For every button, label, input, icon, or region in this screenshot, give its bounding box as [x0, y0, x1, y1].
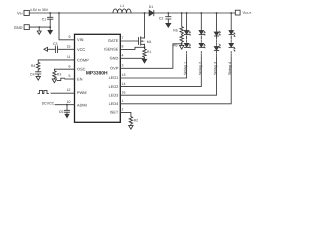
capacitor C4 — [36, 72, 41, 74]
svg-text:7: 7 — [122, 36, 124, 40]
svg-text:L1: L1 — [120, 4, 124, 8]
svg-text:LED3: LED3 — [109, 92, 119, 97]
resistor R5 — [180, 13, 183, 35]
svg-text:C3: C3 — [53, 42, 58, 46]
svg-text:2: 2 — [122, 108, 124, 112]
svg-text:ISET: ISET — [110, 110, 119, 115]
ground C2 (solid) — [166, 23, 171, 27]
svg-text:4.5V to 36V: 4.5V to 36V — [30, 8, 49, 12]
svg-text:GATE: GATE — [108, 38, 119, 43]
resistor R4 — [37, 60, 40, 72]
svg-text:EN: EN — [77, 76, 83, 81]
ground R1 (solid) — [142, 59, 146, 63]
svg-text:6: 6 — [69, 64, 71, 68]
LED string 2 — [120, 12, 205, 87]
svg-text:R2: R2 — [134, 119, 139, 123]
svg-text:D1: D1 — [149, 5, 154, 9]
connector VIN terminal — [24, 10, 29, 15]
wire GATE to MOSFET — [120, 40, 138, 42]
ground R2 (open arrow) — [129, 125, 133, 129]
svg-text:9: 9 — [69, 35, 71, 39]
svg-text:DCVCC: DCVCC — [42, 101, 55, 105]
LED string 1 — [120, 12, 190, 78]
wire drain — [144, 13, 146, 38]
svg-text:String 4: String 4 — [228, 62, 232, 75]
wire VIN to pin 9 — [59, 13, 75, 40]
resistor R2 — [129, 117, 132, 126]
ground OVP divider (open arrow) — [180, 44, 184, 49]
node C2 junction — [167, 12, 169, 14]
capacitor C1 — [49, 12, 51, 14]
LED D5 — [199, 43, 203, 47]
LED string 4 — [120, 12, 235, 104]
LED D2 — [184, 31, 188, 34]
wire string 3 top — [216, 13, 218, 32]
node string 3 junction — [216, 12, 218, 14]
svg-text:MP3390H: MP3390H — [86, 71, 108, 77]
svg-text:LED1: LED1 — [109, 75, 119, 80]
svg-text:5: 5 — [69, 74, 71, 78]
node string 1 junction — [186, 12, 188, 14]
svg-text:11: 11 — [67, 55, 71, 59]
connector VOUT terminal — [235, 10, 240, 15]
wire PWM — [51, 92, 75, 94]
ground arrow left (open) — [44, 47, 48, 51]
wire string 4 top — [230, 13, 232, 32]
svg-text:LED2: LED2 — [109, 84, 119, 89]
svg-text:16: 16 — [122, 90, 126, 94]
wire string 3 to LED3 pin — [216, 52, 218, 57]
connector GND terminal — [24, 25, 29, 30]
node string 2 junction — [200, 12, 202, 14]
wire ISENSE — [120, 47, 144, 49]
capacitor C3 — [58, 48, 75, 50]
wire GND horizontal — [29, 26, 50, 28]
wire string 1 to LED1 pin — [186, 52, 188, 57]
svg-text:R4: R4 — [31, 64, 36, 68]
wire string 1 dashed — [186, 38, 188, 46]
wire OVP — [120, 44, 181, 69]
capacitor C5 — [66, 105, 68, 111]
svg-text:VIN: VIN — [77, 37, 84, 42]
node source junction — [144, 46, 146, 48]
node string 4 junction — [230, 12, 232, 14]
resistor R1 — [143, 47, 146, 58]
svg-text:ADIM: ADIM — [77, 102, 87, 107]
LED string 3 — [120, 12, 220, 95]
svg-text:COMP: COMP — [77, 57, 89, 62]
LED D7 — [214, 47, 218, 51]
svg-text:GND: GND — [14, 25, 23, 30]
ground earth symbol (open triangle) — [38, 26, 40, 28]
ground C5 (solid) — [65, 114, 69, 117]
LED D9 — [229, 43, 233, 47]
wire string 2 to LED2 pin — [200, 52, 202, 57]
IC U1 MP3390H body — [75, 34, 121, 122]
wire string 2 top — [200, 13, 202, 32]
LED D3 — [184, 43, 188, 47]
LED D8 — [229, 31, 233, 34]
svg-text:OVP: OVP — [110, 66, 119, 71]
svg-text:String 3: String 3 — [214, 62, 218, 75]
wire EN — [65, 78, 75, 80]
svg-text:3: 3 — [122, 64, 124, 68]
svg-text:GND: GND — [110, 56, 119, 61]
wire string 1 top — [186, 13, 188, 32]
svg-text:14: 14 — [122, 82, 126, 86]
svg-text:VCC: VCC — [77, 47, 85, 52]
svg-text:R1: R1 — [147, 50, 152, 54]
svg-text:VOUT: VOUT — [243, 10, 252, 15]
svg-text:1: 1 — [122, 99, 124, 103]
ground OSC (open arrow) — [52, 79, 56, 83]
wire OSC — [54, 68, 74, 70]
svg-text:10: 10 — [67, 100, 71, 104]
wire source — [144, 44, 146, 47]
svg-text:M1: M1 — [147, 40, 152, 44]
svg-text:LED4: LED4 — [109, 101, 120, 106]
svg-text:R3: R3 — [57, 72, 62, 76]
node ADIM/C5 junction — [66, 104, 68, 106]
svg-text:8: 8 — [122, 45, 124, 49]
wire ADIM / DCVCC — [55, 104, 75, 106]
node OVP tap — [181, 43, 183, 45]
resistor R3 — [53, 69, 56, 79]
node drain junction — [144, 12, 146, 14]
PWM input square wave symbol — [38, 90, 48, 93]
svg-text:PWM: PWM — [77, 90, 87, 95]
svg-text:ISENSE: ISENSE — [104, 47, 119, 52]
wire string 4 dashed — [230, 38, 232, 46]
wire GND pin to R1 — [120, 57, 144, 59]
svg-text:R5: R5 — [173, 29, 178, 33]
EN step waveform symbol — [57, 78, 64, 80]
wire VIN rail top — [29, 12, 235, 14]
svg-text:VIN: VIN — [17, 11, 23, 16]
svg-text:OSC: OSC — [77, 67, 86, 72]
node OVP divider top junction — [181, 12, 183, 14]
wire string 2 dashed — [200, 38, 202, 46]
svg-text:C1: C1 — [42, 17, 47, 21]
svg-text:String 1: String 1 — [184, 62, 188, 75]
svg-text:C5: C5 — [59, 110, 64, 114]
svg-text:13: 13 — [122, 73, 126, 77]
capacitor C2 — [167, 13, 169, 17]
svg-text:12: 12 — [67, 88, 71, 92]
wire string 4 to LED4 pin — [230, 52, 232, 57]
LED D6 — [214, 32, 218, 36]
resistor R6 — [180, 35, 183, 44]
svg-text:C4: C4 — [30, 72, 35, 76]
ground C1 (solid) — [49, 26, 51, 28]
ground COMP (open arrow) — [36, 76, 40, 80]
svg-text:15: 15 — [67, 45, 71, 49]
svg-text:4: 4 — [122, 54, 124, 58]
wire COMP — [38, 59, 74, 61]
svg-text:C2: C2 — [159, 17, 164, 21]
node VIN rail junction — [58, 12, 60, 14]
wire string 3 dashed — [216, 38, 218, 46]
transistor M1 — [138, 38, 140, 45]
wire ISET — [120, 112, 131, 116]
svg-text:String 2: String 2 — [198, 62, 202, 75]
LED D4 — [199, 31, 203, 34]
